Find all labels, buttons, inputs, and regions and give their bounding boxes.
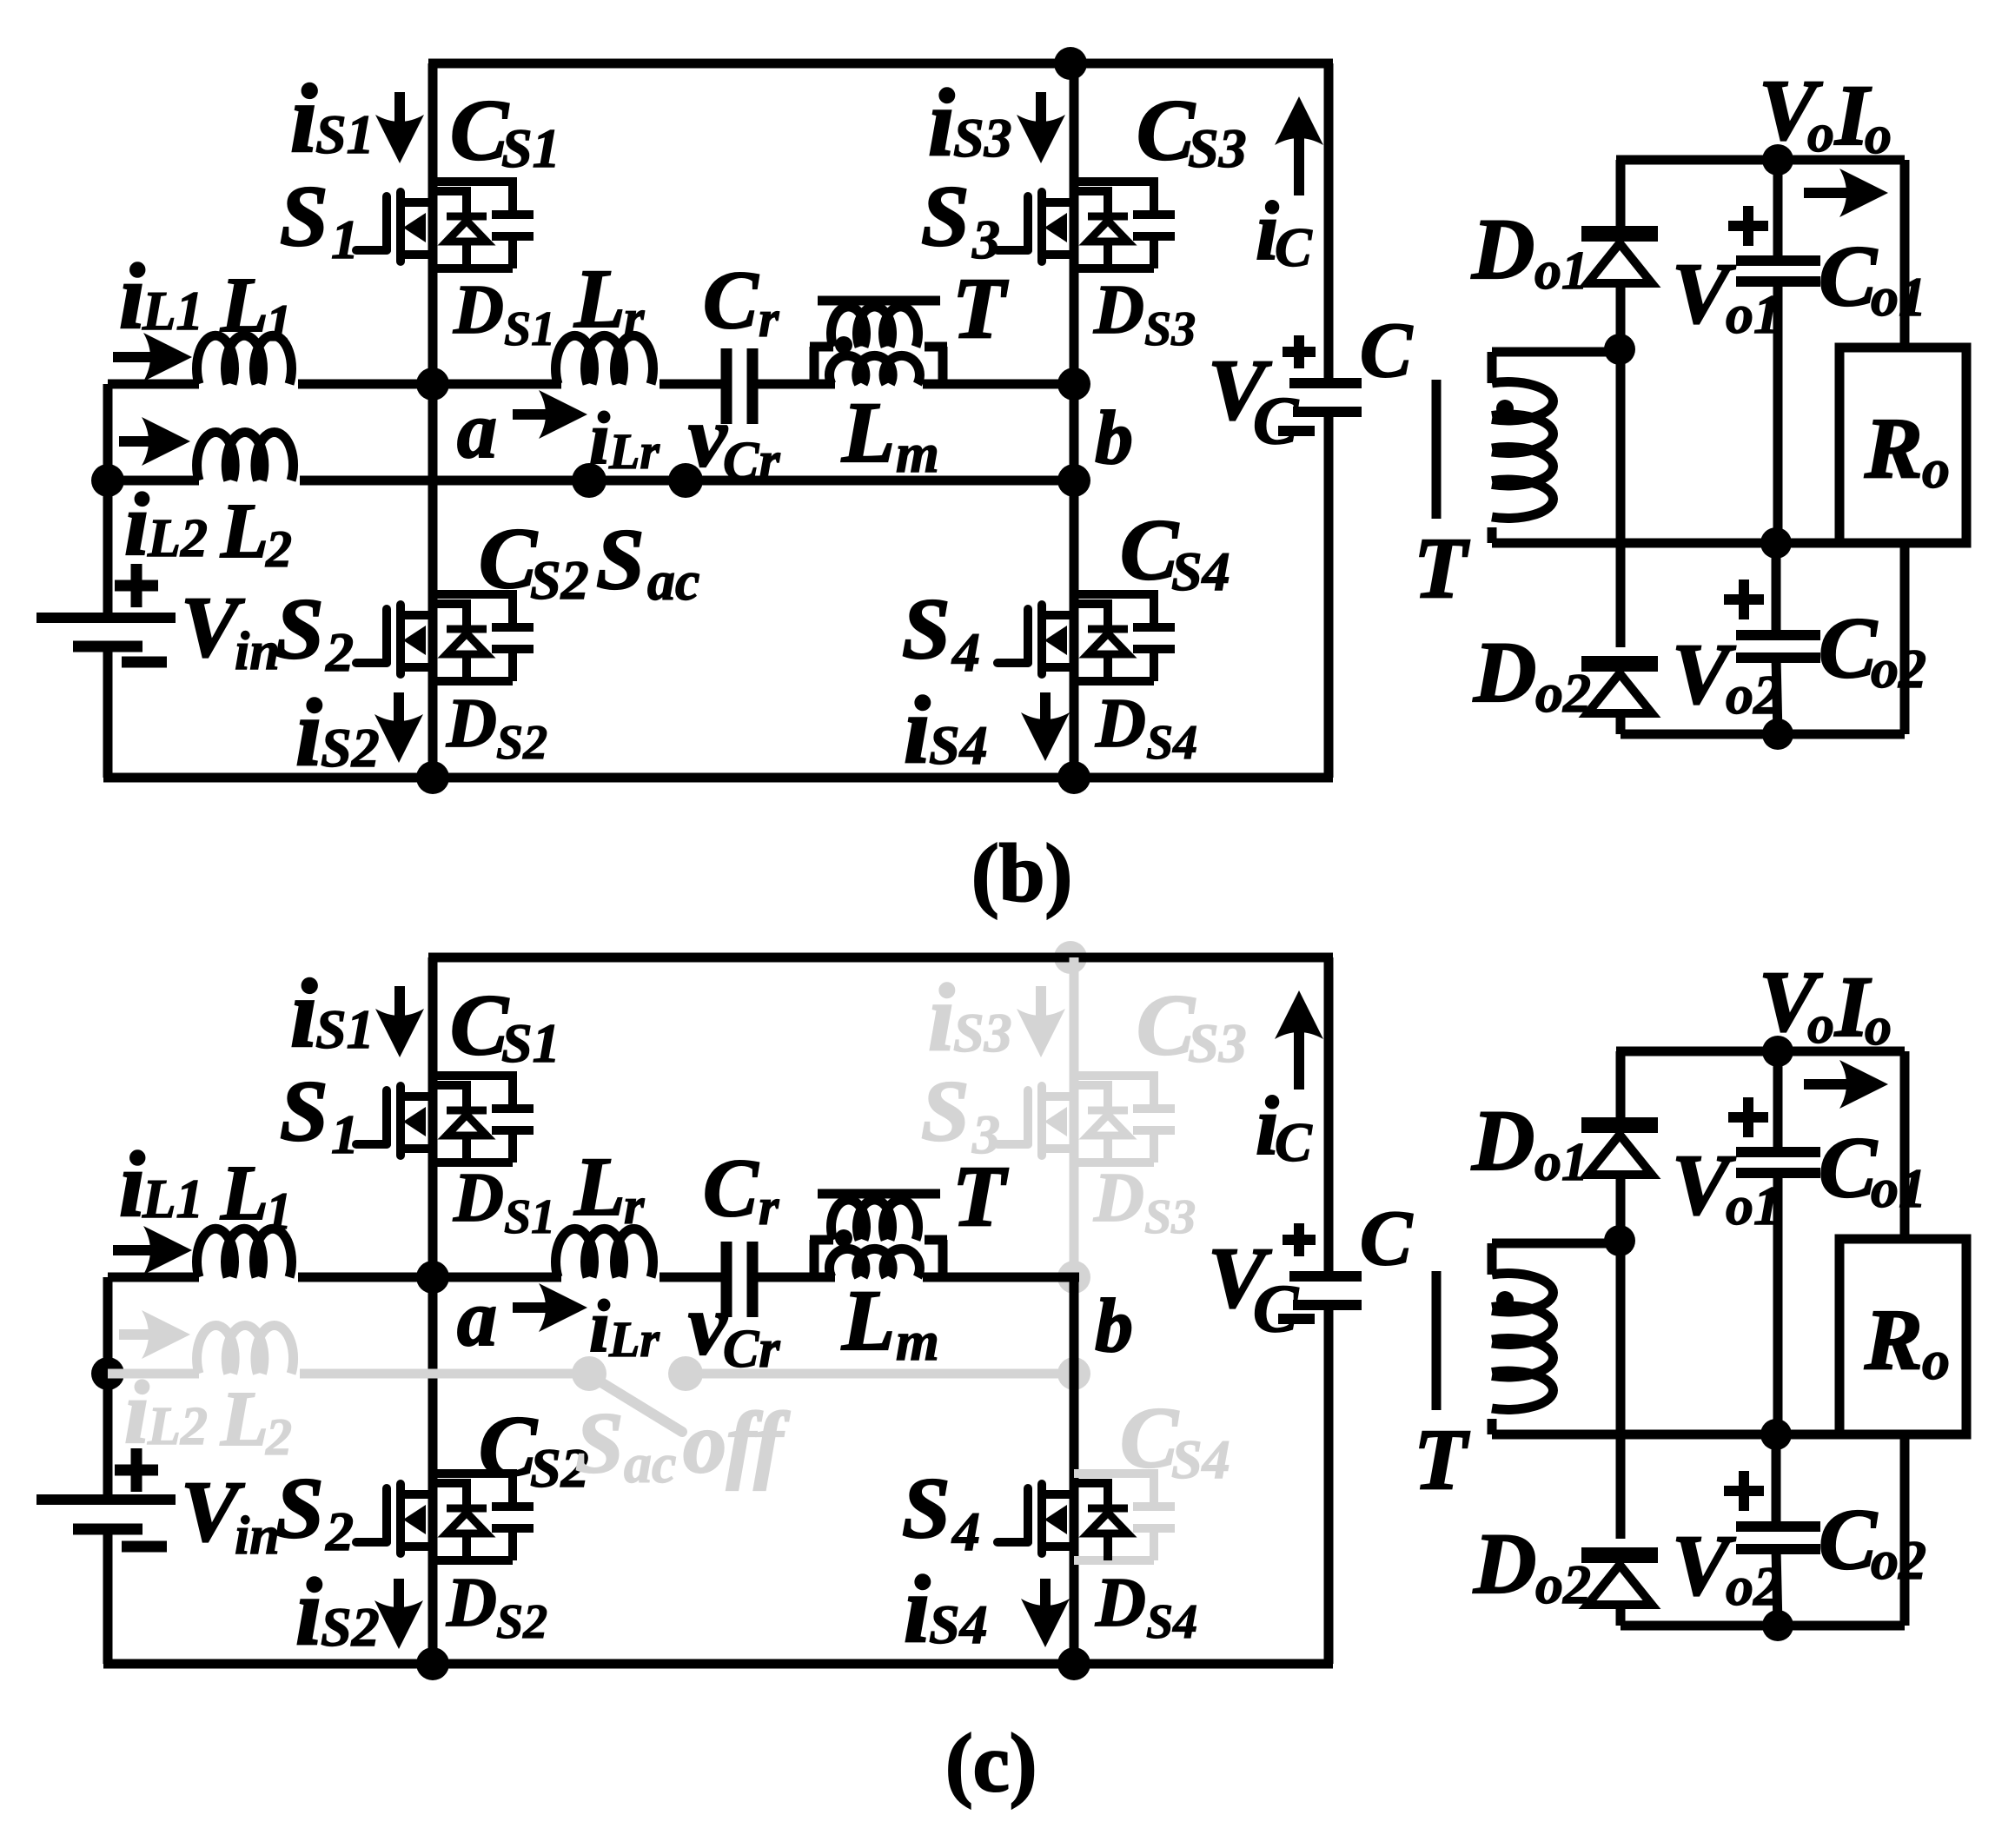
svg-text:i: i (589, 396, 610, 480)
node dot at row1/right-leg (gray) (1057, 1261, 1090, 1294)
svg-text:S2: S2 (496, 1595, 547, 1649)
svg-text:D: D (1093, 272, 1144, 348)
svg-text:C: C (479, 1398, 538, 1494)
svg-text:r: r (624, 1177, 645, 1235)
wire Co1 to midpoint (1773, 282, 1783, 543)
node dot capacitor midpoint (1760, 527, 1792, 559)
capacitor C minus mark (1278, 426, 1315, 436)
svg-text:L2: L2 (147, 509, 208, 568)
svg-text:S3: S3 (1188, 1012, 1247, 1074)
arrow iS1 (current into S1) (375, 986, 424, 1057)
svg-text:S: S (280, 168, 328, 264)
svg-text:S4: S4 (1171, 1428, 1230, 1490)
arrow iS4 (current into S4) (1021, 692, 1070, 761)
snubber capacitor CS4 (1074, 1469, 1175, 1560)
arrow iL2 (inductor L2 current) (119, 417, 190, 466)
node junction bottom left leg (416, 761, 449, 794)
svg-text:3: 3 (971, 1103, 1000, 1165)
svg-text:L: L (220, 262, 268, 348)
snubber capacitor CS3 (1074, 1071, 1175, 1162)
battery Vin top plate (36, 613, 176, 623)
svg-text:o2: o2 (1535, 662, 1591, 724)
battery Vin plus mark (115, 564, 158, 607)
svg-text:4: 4 (951, 621, 980, 683)
svg-text:2: 2 (265, 1408, 292, 1466)
wire row2 Sac to node b (686, 1369, 1074, 1379)
inductor Lm (magnetizing) (829, 355, 919, 384)
wire row2 L2 to Sac (300, 1369, 589, 1379)
wire row1 from corner to L1 (108, 1273, 199, 1282)
svg-text:S1: S1 (504, 1190, 555, 1244)
svg-text:L2: L2 (147, 1397, 208, 1456)
svg-text:R: R (1864, 1291, 1923, 1388)
body diode DS4 (1074, 599, 1128, 681)
snubber capacitor CS4 (1074, 590, 1175, 681)
node dot input split (91, 1357, 124, 1390)
svg-text:D: D (1471, 201, 1534, 297)
svg-text:i: i (119, 1134, 145, 1236)
svg-text:Cr: Cr (723, 1320, 780, 1379)
node b junction dot (1057, 1357, 1090, 1390)
wire left bridge leg (S1/S2) (428, 957, 438, 1664)
wire row1 L1 to node a (298, 380, 433, 389)
capacitor Co1 plus mark (1728, 1097, 1768, 1137)
svg-text:S: S (275, 1460, 324, 1556)
node a junction dot (416, 1261, 449, 1294)
wire secondary bottom lead (1488, 527, 1497, 543)
capacitor Co1 top plate (1736, 255, 1820, 266)
capacitor C plus mark (1283, 1223, 1316, 1256)
svg-text:S1: S1 (504, 302, 555, 356)
svg-text:o: o (1865, 106, 1892, 165)
node dot output Vo top (1762, 144, 1793, 176)
wire rectifier bottom rail (1621, 1621, 1905, 1631)
svg-text:C: C (1137, 82, 1196, 178)
svg-text:1: 1 (331, 209, 359, 270)
transformer T core bar (818, 1189, 940, 1199)
capacitor Cr right plate (747, 1242, 759, 1317)
node junction bottom right leg (1057, 761, 1090, 794)
svg-text:1: 1 (331, 1103, 359, 1165)
wire row1 transformer to right leg (923, 380, 1079, 389)
transformer T secondary winding (1492, 1274, 1553, 1410)
svg-text:2: 2 (325, 1500, 354, 1562)
svg-text:S2: S2 (321, 1596, 380, 1658)
svg-text:o1: o1 (1726, 283, 1781, 345)
capacitor Co2 top plate (1736, 630, 1820, 640)
node dot capacitor midpoint (1760, 1419, 1792, 1450)
resistor Ro box (1839, 348, 1966, 543)
svg-text:S3: S3 (953, 1002, 1012, 1063)
svg-text:(b): (b) (971, 827, 1072, 919)
node dot transformer secondary top (1604, 334, 1635, 365)
wire top rail (428, 953, 1333, 963)
svg-text:S: S (275, 580, 324, 677)
wire row2 dot to L2 (108, 476, 199, 486)
svg-text:T: T (1414, 1411, 1470, 1507)
wire node a to Lr (433, 1273, 561, 1282)
wire rectifier top rail (1616, 156, 1905, 165)
capacitor Co2 plus mark (1724, 580, 1764, 619)
svg-text:i: i (295, 679, 322, 785)
capacitor C bottom plate (1293, 407, 1362, 417)
snubber capacitor CS2 (433, 1469, 534, 1560)
transformer T primary winding loop (810, 307, 947, 384)
svg-text:m: m (896, 1310, 939, 1372)
svg-text:L: L (841, 1272, 895, 1368)
transformer T secondary polarity dot (1496, 400, 1514, 417)
transformer T secondary polarity dot (1496, 1291, 1514, 1308)
battery Vin plus mark (115, 1448, 158, 1492)
svg-text:o1: o1 (1534, 1133, 1588, 1192)
wire right bridge leg upper section (gray, off) (1070, 957, 1079, 1277)
svg-text:L1: L1 (142, 281, 203, 341)
svg-text:S3: S3 (1144, 302, 1196, 356)
svg-text:R: R (1864, 400, 1923, 496)
wire Co1 top lead (1773, 160, 1783, 261)
wire right bridge leg (S3/S4) (1070, 63, 1079, 778)
svg-text:C: C (1819, 599, 1878, 696)
wire Do1 to secondary node (1616, 1175, 1626, 1241)
capacitor Co2 plus mark (1724, 1471, 1764, 1511)
svg-text:o2: o2 (1726, 664, 1781, 725)
wire row2 Sac to node b (686, 476, 1074, 486)
svg-text:C: C (450, 977, 509, 1073)
wire battery top lead (103, 480, 113, 618)
transformer T secondary winding (1492, 382, 1553, 519)
svg-text:in: in (235, 622, 280, 681)
transistor S4 (MOSFET) (998, 1484, 1074, 1553)
transformer T core bar (818, 296, 940, 306)
svg-text:S4: S4 (1171, 540, 1230, 602)
svg-text:D: D (453, 1160, 504, 1236)
svg-text:C: C (1819, 228, 1878, 324)
switch Sac open blade (off) (593, 1377, 682, 1432)
inductor L2 (197, 1325, 294, 1374)
wire load branch lower (1900, 1434, 1910, 1626)
wire Sac closed contact (589, 476, 686, 486)
node junction row1 right leg (1057, 368, 1090, 401)
inductor L1 (196, 335, 291, 384)
body diode DS4 (1074, 1479, 1128, 1560)
arrow iLr (resonant current at node a) (513, 1283, 587, 1332)
svg-text:S: S (902, 580, 951, 677)
snubber capacitor CS1 (433, 1071, 534, 1162)
svg-text:S1: S1 (315, 103, 374, 165)
svg-text:D: D (1093, 1160, 1144, 1236)
svg-text:i: i (295, 1559, 322, 1665)
svg-text:S4: S4 (929, 714, 988, 776)
svg-text:o: o (1922, 1329, 1950, 1391)
wire right edge lower (C to bottom rail) (1324, 412, 1334, 778)
transformer T primary polarity dot (835, 1229, 852, 1247)
auxiliary switch Sac right terminal dot (668, 463, 703, 498)
snubber capacitor CS3 (1074, 177, 1175, 268)
wire right edge upper (top rail to C) (1324, 63, 1334, 383)
transformer T primary winding loop (810, 1200, 947, 1277)
capacitor Cr right plate (747, 348, 759, 424)
wire load branch upper (1900, 1051, 1910, 1239)
transformer T primary polarity dot (835, 336, 852, 354)
diode Do2 (1581, 1555, 1658, 1605)
arrow iC (capacitor C current) (1275, 96, 1323, 195)
wire load branch lower (1900, 543, 1910, 734)
svg-text:C: C (1253, 382, 1299, 458)
svg-text:L: L (220, 488, 268, 574)
svg-text:C: C (479, 510, 538, 606)
battery Vin minus mark (122, 1541, 167, 1553)
wire Lr to Cr (660, 380, 722, 389)
capacitor C plus mark (1283, 335, 1316, 368)
capacitor Co1 bottom plate (1736, 1168, 1820, 1178)
svg-text:D: D (1473, 1515, 1536, 1612)
wire diode branch upper (top rail to Do1) (1616, 1051, 1626, 1117)
wire Co2 to bottom rail (1776, 658, 1778, 734)
transistor S2 (MOSFET) (356, 605, 433, 674)
svg-text:r: r (759, 290, 779, 348)
capacitor C top plate (1289, 1271, 1362, 1282)
svg-text:r: r (759, 1178, 779, 1235)
svg-text:S: S (280, 1063, 328, 1159)
diode Do2 (1581, 664, 1658, 713)
arrow Io (output current) (1804, 169, 1888, 217)
snubber capacitor CS1 (433, 177, 534, 268)
svg-text:Lr: Lr (608, 1311, 660, 1368)
svg-text:(c): (c) (945, 1717, 1037, 1809)
wire right edge upper (top rail to C) (1324, 957, 1334, 1276)
svg-text:in: in (235, 1507, 280, 1566)
body diode DS1 (433, 187, 487, 268)
svg-text:ac: ac (647, 550, 699, 612)
svg-text:b: b (1095, 396, 1133, 480)
arrow iS1 (current into S1) (375, 92, 424, 163)
battery Vin top plate (36, 1494, 176, 1505)
svg-text:i: i (589, 1284, 610, 1368)
resistor Ro box (1839, 1239, 1966, 1434)
svg-text:i: i (290, 65, 317, 173)
svg-text:S1: S1 (315, 998, 374, 1060)
wire load branch upper (1900, 160, 1910, 348)
svg-text:i: i (904, 1556, 931, 1662)
diode Do1 (1581, 1125, 1658, 1175)
body diode DS1 (433, 1081, 487, 1162)
svg-text:o1: o1 (1871, 266, 1926, 328)
svg-text:L: L (220, 1150, 268, 1236)
svg-text:L: L (573, 1140, 626, 1233)
auxiliary switch Sac left terminal dot (572, 1356, 606, 1391)
node junction top (leg S3/S4 to top rail) (1054, 47, 1087, 80)
node dot output Vo top (1762, 1036, 1793, 1067)
wire battery bottom lead (103, 646, 113, 778)
svg-text:2: 2 (265, 520, 292, 578)
svg-text:o: o (1807, 104, 1834, 163)
svg-text:2: 2 (325, 621, 354, 683)
svg-text:i: i (124, 1363, 149, 1462)
node dot output bottom (1762, 719, 1793, 750)
node junction bottom left leg (416, 1647, 449, 1680)
wire Cr to transformer (757, 1273, 835, 1282)
svg-text:L: L (220, 1376, 268, 1462)
wire row1 L1 to node a (298, 1273, 433, 1282)
arrow iS4 (current into S4) (1021, 1579, 1070, 1647)
wire secondary top lead (1492, 1239, 1620, 1249)
svg-text:i: i (928, 964, 955, 1070)
svg-text:S: S (921, 1063, 970, 1159)
auxiliary switch Sac right terminal dot (668, 1356, 703, 1391)
svg-text:o1: o1 (1871, 1157, 1926, 1219)
svg-text:o: o (1922, 438, 1950, 500)
wire Co2 top lead (1772, 543, 1781, 635)
svg-text:L: L (841, 384, 895, 480)
wire row1 transformer to right leg (923, 1273, 1079, 1282)
svg-text:Cr: Cr (723, 432, 780, 491)
wire secondary bottom lead (1488, 1419, 1497, 1434)
svg-text:S2: S2 (496, 716, 547, 770)
svg-text:S1: S1 (501, 1012, 560, 1074)
wire right leg through node b (black over gray dot) (1070, 1277, 1079, 1474)
svg-text:4: 4 (951, 1500, 980, 1562)
capacitor Cr left plate (721, 1242, 732, 1317)
wire rectifier bottom rail (1621, 730, 1905, 739)
wire diode branch middle (node to Do2) (1616, 349, 1626, 647)
svg-text:o2: o2 (1535, 1553, 1591, 1615)
inductor Lm (magnetizing) (829, 1249, 919, 1277)
svg-text:C: C (450, 82, 509, 178)
svg-text:D: D (1095, 686, 1146, 762)
svg-text:a: a (457, 1274, 497, 1362)
svg-text:L: L (573, 252, 626, 345)
wire Lr to Cr (660, 1273, 722, 1282)
svg-text:C: C (1120, 501, 1179, 598)
svg-text:S3: S3 (953, 107, 1012, 169)
wire Cr to transformer (757, 380, 835, 389)
diode Do1 (1581, 234, 1658, 283)
arrow iLr (resonant current at node a) (513, 390, 587, 439)
svg-text:T: T (952, 260, 1009, 356)
capacitor Co1 top plate (1736, 1147, 1820, 1157)
arrow iL1 (inductor L1 current) (113, 333, 192, 381)
arrow iL1 (inductor L1 current) (113, 1226, 192, 1275)
capacitor Co1 plus mark (1728, 206, 1768, 246)
svg-text:3: 3 (971, 209, 1000, 270)
node junction bottom right leg (1057, 1647, 1090, 1680)
transformer T secondary core bar (1432, 380, 1442, 519)
svg-text:o: o (1865, 997, 1892, 1056)
node dot input split (91, 464, 124, 497)
svg-text:S4: S4 (929, 1593, 988, 1655)
capacitor Co2 bottom plate (1736, 652, 1820, 663)
svg-text:S2: S2 (321, 717, 380, 778)
svg-text:C: C (703, 254, 759, 346)
svg-text:T: T (1414, 520, 1470, 616)
transistor S3 (MOSFET) (998, 192, 1074, 262)
wire diode branch upper (top rail to Do1) (1616, 160, 1626, 226)
svg-text:S1: S1 (501, 117, 560, 179)
svg-text:i: i (904, 677, 931, 783)
svg-text:S3: S3 (1144, 1190, 1196, 1244)
arrow iS2 (current into S2) (374, 692, 423, 763)
svg-text:m: m (896, 422, 939, 484)
capacitor C top plate (1289, 378, 1362, 388)
svg-text:o1: o1 (1534, 242, 1588, 301)
svg-text:off: off (683, 1394, 790, 1491)
arrow iS3 (current into S3) (1017, 986, 1065, 1057)
arrow Io (output current) (1804, 1060, 1888, 1109)
wire bottom rail (103, 773, 1333, 783)
wire row1 from corner to L1 (108, 380, 199, 389)
svg-text:b: b (1095, 1284, 1133, 1368)
arrow iC (capacitor C current) (1275, 990, 1323, 1090)
svg-text:C: C (1275, 216, 1313, 278)
svg-text:i: i (290, 960, 317, 1068)
node dot transformer secondary top (1604, 1225, 1635, 1256)
svg-text:o2: o2 (1871, 638, 1926, 699)
svg-text:r: r (624, 289, 645, 347)
svg-text:S2: S2 (530, 549, 589, 611)
svg-text:1: 1 (266, 1182, 292, 1240)
body diode DS2 (433, 599, 487, 681)
inductor Lr (resonant) (556, 335, 653, 384)
wire rectifier top rail (1616, 1047, 1905, 1056)
capacitor C minus mark (1278, 1314, 1315, 1324)
svg-text:S: S (902, 1460, 951, 1556)
svg-text:i: i (928, 70, 955, 176)
svg-text:C: C (703, 1142, 759, 1234)
wire secondary top lead (1492, 348, 1620, 357)
node dot output bottom (1762, 1610, 1793, 1641)
transformer T secondary core bar (1432, 1271, 1442, 1410)
capacitor C bottom plate (1293, 1300, 1362, 1310)
battery Vin minus mark (122, 657, 167, 668)
capacitor Cr left plate (721, 348, 732, 424)
svg-text:C: C (1253, 1270, 1299, 1346)
wire right bridge leg lower section (1070, 1277, 1079, 1664)
wire top rail (428, 59, 1333, 69)
svg-text:C: C (1275, 1111, 1313, 1173)
wire Do1 to secondary node (1616, 283, 1626, 349)
transistor S1 (MOSFET) (356, 1086, 433, 1156)
wire Co1 to midpoint (1773, 1173, 1783, 1434)
transistor S1 (MOSFET) (356, 192, 433, 262)
battery Vin bottom plate (73, 641, 143, 652)
svg-text:S4: S4 (1146, 716, 1197, 770)
body diode DS3 (1074, 187, 1128, 268)
svg-text:i: i (119, 246, 145, 348)
svg-text:D: D (1471, 1092, 1534, 1189)
svg-text:S4: S4 (1146, 1595, 1197, 1649)
transistor S2 (MOSFET) (356, 1484, 433, 1553)
inductor L1 (197, 1229, 292, 1277)
svg-text:i: i (124, 475, 149, 574)
wire battery bottom lead (103, 1529, 113, 1664)
wire Co2 to bottom rail (1776, 1549, 1778, 1626)
wire node a to Lr (433, 380, 561, 389)
wire row2 dot to L2 (108, 1369, 199, 1379)
node a junction dot (416, 368, 449, 401)
svg-text:S: S (575, 1394, 624, 1491)
svg-text:o2: o2 (1726, 1555, 1781, 1617)
capacitor Co2 bottom plate (1736, 1544, 1820, 1554)
wire left bridge leg (S1/S2) (428, 63, 438, 778)
transistor S4 (MOSFET) (998, 605, 1074, 674)
svg-text:D: D (1095, 1565, 1146, 1641)
svg-text:C: C (1137, 977, 1196, 1073)
inductor Lr (resonant) (556, 1229, 653, 1277)
svg-text:S: S (596, 511, 645, 607)
svg-text:S3: S3 (1188, 117, 1247, 179)
snubber capacitor CS2 (433, 590, 534, 681)
wire bottom rail (103, 1659, 1333, 1669)
